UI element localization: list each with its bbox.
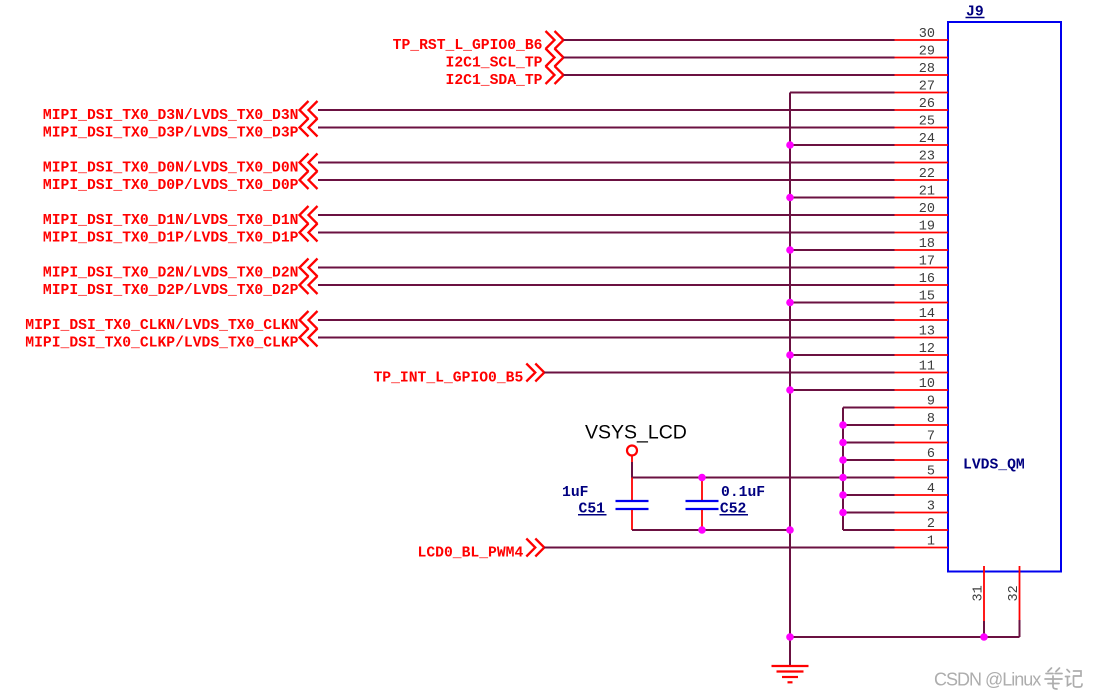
junction C52 bottom: [698, 526, 706, 534]
pin 11 stub and pin number: [895, 359, 949, 374]
svg-text:0.1uF: 0.1uF: [721, 485, 765, 501]
wire MIPI_DSI_TX0_D2N/LVDS_TX0_D2N to pin 17: [318, 267, 895, 269]
net port TP_INT_L_GPIO0_B5 (chevron): [373, 364, 544, 387]
ground symbol: [772, 666, 809, 682]
pin 15 stub and pin number: [895, 289, 949, 304]
pin 13 stub and pin number: [895, 324, 949, 339]
svg-text:9: 9: [927, 394, 935, 409]
wire GND bus to pin 10: [790, 389, 895, 391]
svg-text:27: 27: [919, 79, 935, 94]
junction pin 31 / GND rail: [980, 633, 988, 641]
net port MIPI_DSI_TX0_D3P/LVDS_TX0_D3P (chevron): [43, 119, 318, 142]
svg-text:21: 21: [919, 184, 935, 199]
net port MIPI_DSI_TX0_D2N/LVDS_TX0_D2N (chevron): [43, 259, 318, 282]
pin 9 stub and pin number: [895, 394, 949, 409]
net port MIPI_DSI_TX0_D0P/LVDS_TX0_D0P (chevron): [43, 171, 318, 194]
net port MIPI_DSI_TX0_CLKN/LVDS_TX0_CLKN (chevron): [25, 311, 317, 334]
svg-text:LCD0_BL_PWM4: LCD0_BL_PWM4: [418, 546, 524, 562]
svg-text:18: 18: [919, 237, 935, 252]
svg-text:22: 22: [919, 167, 935, 182]
refdes label C51: [578, 502, 607, 518]
wire VSYS bus to pin 6: [843, 459, 895, 461]
pin 17 stub and pin number: [895, 254, 949, 269]
pin 28 stub and pin number: [895, 62, 949, 77]
junction VSYS bus pin 4: [839, 491, 847, 499]
wire GND vertical bus: [789, 93, 791, 666]
wire MIPI_DSI_TX0_D1P/LVDS_TX0_D1P to pin 19: [318, 232, 895, 234]
wire VSYS_LCD circle to rail: [631, 456, 633, 478]
svg-text:2: 2: [927, 517, 935, 532]
pin 26 stub and pin number: [895, 97, 949, 112]
wire GND bus to pin 12: [790, 354, 895, 356]
pin 27 stub and pin number: [895, 79, 949, 94]
svg-text:4: 4: [927, 482, 935, 497]
junction GND bus pin 18: [786, 246, 794, 254]
svg-text:29: 29: [919, 44, 935, 59]
svg-text:TP_INT_L_GPIO0_B5: TP_INT_L_GPIO0_B5: [373, 371, 523, 387]
svg-text:19: 19: [919, 219, 935, 234]
net port MIPI_DSI_TX0_D3N/LVDS_TX0_D3N (chevron): [43, 101, 318, 124]
pin 22 stub and pin number: [895, 167, 949, 182]
svg-text:8: 8: [927, 412, 935, 427]
value label 0.1uF: [721, 485, 765, 501]
net port LCD0_BL_PWM4 (chevron): [418, 539, 545, 562]
net port I2C1_SCL_TP (chevron): [446, 49, 564, 72]
svg-text:MIPI_DSI_TX0_D1P/LVDS_TX0_D1P: MIPI_DSI_TX0_D1P/LVDS_TX0_D1P: [43, 231, 299, 247]
pin 19 stub and pin number: [895, 219, 949, 234]
svg-text:15: 15: [919, 289, 935, 304]
svg-text:26: 26: [919, 97, 935, 112]
wire TP_RST_L_GPIO0_B6 to pin 30: [564, 39, 895, 41]
svg-text:MIPI_DSI_TX0_CLKP/LVDS_TX0_CLK: MIPI_DSI_TX0_CLKP/LVDS_TX0_CLKP: [25, 336, 298, 352]
watermark CSDN @Linux: [934, 668, 1082, 690]
pin 25 stub and pin number: [895, 114, 949, 129]
junction C52 top: [698, 474, 706, 482]
svg-text:I2C1_SDA_TP: I2C1_SDA_TP: [446, 73, 543, 89]
wire GND bus to pin 18: [790, 249, 895, 251]
net port MIPI_DSI_TX0_D0N/LVDS_TX0_D0N (chevron): [43, 154, 318, 177]
pin 32 number: [1007, 585, 1022, 601]
pin 12 stub and pin number: [895, 342, 949, 357]
pin 4 stub and pin number: [895, 482, 949, 497]
value label 1uF: [562, 485, 588, 501]
wire LCD0_BL_PWM4 to pin 1: [544, 547, 894, 549]
svg-text:1uF: 1uF: [562, 485, 588, 501]
svg-text:MIPI_DSI_TX0_D1N/LVDS_TX0_D1N: MIPI_DSI_TX0_D1N/LVDS_TX0_D1N: [43, 213, 299, 229]
svg-text:I2C1_SCL_TP: I2C1_SCL_TP: [446, 56, 543, 72]
svg-text:14: 14: [919, 307, 935, 322]
pin 32 stub: [1019, 566, 1021, 637]
wire GND bus to pin 21: [790, 197, 895, 199]
svg-text:7: 7: [927, 429, 935, 444]
wire VSYS bus to pin 4: [843, 494, 895, 496]
svg-text:30: 30: [919, 27, 935, 42]
wire MIPI_DSI_TX0_D3N/LVDS_TX0_D3N to pin 26: [318, 109, 895, 111]
svg-text:5: 5: [927, 464, 935, 479]
wire VSYS bus to pin 8: [843, 424, 895, 426]
svg-text:25: 25: [919, 114, 935, 129]
pin 16 stub and pin number: [895, 272, 949, 287]
pin 1 stub and pin number: [895, 534, 949, 549]
connector J9 body: [948, 22, 1061, 572]
svg-text:12: 12: [919, 342, 935, 357]
pin 21 stub and pin number: [895, 184, 949, 199]
svg-text:3: 3: [927, 499, 935, 514]
refdes label J9: [966, 5, 985, 21]
junction VSYS bus pin 8: [839, 421, 847, 429]
pin 24 stub and pin number: [895, 132, 949, 147]
pin 20 stub and pin number: [895, 202, 949, 217]
pin 18 stub and pin number: [895, 237, 949, 252]
svg-text:17: 17: [919, 254, 935, 269]
net port MIPI_DSI_TX0_D1P/LVDS_TX0_D1P (chevron): [43, 224, 318, 247]
capacitor C51 plates: [616, 501, 649, 509]
wire VSYS bus to pin 7: [843, 442, 895, 444]
wire I2C1_SCL_TP to pin 29: [564, 57, 895, 59]
pin 31 stub: [983, 566, 985, 637]
pin 2 stub and pin number: [895, 517, 949, 532]
wire MIPI_DSI_TX0_CLKP/LVDS_TX0_CLKP to pin 13: [318, 337, 895, 339]
svg-text:MIPI_DSI_TX0_D2P/LVDS_TX0_D2P: MIPI_DSI_TX0_D2P/LVDS_TX0_D2P: [43, 283, 299, 299]
wire GND bus to pin 24: [790, 144, 895, 146]
net port MIPI_DSI_TX0_D2P/LVDS_TX0_D2P (chevron): [43, 276, 318, 299]
svg-text:13: 13: [919, 324, 935, 339]
pin 6 stub and pin number: [895, 447, 949, 462]
net port TP_RST_L_GPIO0_B6 (chevron): [393, 31, 564, 54]
wire VSYS bus to pin 9: [843, 407, 895, 409]
wire VSYS bus to pin 2: [843, 529, 895, 531]
svg-text:1: 1: [927, 534, 935, 549]
wire VSYS bus to pin 5 / capacitor top rail: [632, 477, 895, 479]
wire MIPI_DSI_TX0_D0N/LVDS_TX0_D0N to pin 23: [318, 162, 895, 164]
net port MIPI_DSI_TX0_CLKP/LVDS_TX0_CLKP (chevron): [25, 329, 317, 352]
junction GND bus pin 24: [786, 141, 794, 149]
pin 30 stub and pin number: [895, 27, 949, 42]
wire MIPI_DSI_TX0_D0P/LVDS_TX0_D0P to pin 22: [318, 179, 895, 181]
svg-text:MIPI_DSI_TX0_D2N/LVDS_TX0_D2N: MIPI_DSI_TX0_D2N/LVDS_TX0_D2N: [43, 266, 299, 282]
svg-text:32: 32: [1007, 585, 1022, 601]
wire GND bus to pin 27: [790, 92, 895, 94]
wire I2C1_SDA_TP to pin 28: [564, 74, 895, 76]
junction GND bus pin 10: [786, 386, 794, 394]
capacitor C52 bottom lead: [701, 510, 703, 529]
svg-text:LVDS_QM: LVDS_QM: [963, 458, 1025, 474]
pin 3 stub and pin number: [895, 499, 949, 514]
pin 14 stub and pin number: [895, 307, 949, 322]
junction cap rail / GND bus: [786, 526, 794, 534]
junction GND rail / GND bus: [786, 633, 794, 641]
capacitor C51 bottom lead: [631, 510, 633, 529]
svg-text:31: 31: [972, 585, 987, 601]
svg-text:MIPI_DSI_TX0_CLKN/LVDS_TX0_CLK: MIPI_DSI_TX0_CLKN/LVDS_TX0_CLKN: [25, 318, 298, 334]
svg-text:MIPI_DSI_TX0_D3P/LVDS_TX0_D3P: MIPI_DSI_TX0_D3P/LVDS_TX0_D3P: [43, 126, 299, 142]
pin 8 stub and pin number: [895, 412, 949, 427]
svg-text:16: 16: [919, 272, 935, 287]
svg-text:10: 10: [919, 377, 935, 392]
svg-text:CSDN @Linux: CSDN @Linux: [934, 670, 1041, 690]
capacitor C52 top lead: [701, 478, 703, 501]
wire MIPI_DSI_TX0_CLKN/LVDS_TX0_CLKN to pin 14: [318, 319, 895, 321]
part value label LVDS_QM: [963, 458, 1025, 474]
wire MIPI_DSI_TX0_D2P/LVDS_TX0_D2P to pin 16: [318, 284, 895, 286]
svg-text:28: 28: [919, 62, 935, 77]
pin 10 stub and pin number: [895, 377, 949, 392]
junction VSYS bus pin 7: [839, 439, 847, 447]
wire capacitor bottom rail to GND bus: [632, 529, 790, 530]
wire MIPI_DSI_TX0_D3P/LVDS_TX0_D3P to pin 25: [318, 127, 895, 129]
wire VSYS bus to pin 3: [843, 512, 895, 514]
capacitor C52 plates: [686, 501, 719, 509]
pin 29 stub and pin number: [895, 44, 949, 59]
pin 5 stub and pin number: [895, 464, 949, 479]
junction VSYS bus pin 5: [839, 474, 847, 482]
svg-text:TP_RST_L_GPIO0_B6: TP_RST_L_GPIO0_B6: [393, 38, 543, 54]
junction VSYS bus pin 3: [839, 509, 847, 517]
svg-text:23: 23: [919, 149, 935, 164]
svg-text:VSYS_LCD: VSYS_LCD: [585, 422, 687, 444]
junction VSYS bus pin 6: [839, 456, 847, 464]
pin 31 number: [972, 585, 987, 601]
svg-text:6: 6: [927, 447, 935, 462]
pin 7 stub and pin number: [895, 429, 949, 444]
wire pins 31/32 to GND bus: [790, 636, 1020, 638]
svg-text:11: 11: [919, 359, 935, 374]
svg-text:20: 20: [919, 202, 935, 217]
capacitor C51 top lead: [631, 478, 633, 501]
svg-text:MIPI_DSI_TX0_D0P/LVDS_TX0_D0P: MIPI_DSI_TX0_D0P/LVDS_TX0_D0P: [43, 178, 299, 194]
net port I2C1_SDA_TP (chevron): [446, 66, 564, 89]
junction GND bus pin 15: [786, 299, 794, 307]
svg-text:MIPI_DSI_TX0_D0N/LVDS_TX0_D0N: MIPI_DSI_TX0_D0N/LVDS_TX0_D0N: [43, 161, 299, 177]
net port MIPI_DSI_TX0_D1N/LVDS_TX0_D1N (chevron): [43, 206, 318, 229]
power symbol VSYS_LCD circle: [627, 446, 637, 456]
svg-text:MIPI_DSI_TX0_D3N/LVDS_TX0_D3N: MIPI_DSI_TX0_D3N/LVDS_TX0_D3N: [43, 108, 299, 124]
refdes label C52: [720, 502, 749, 518]
wire TP_INT_L_GPIO0_B5 to pin 11: [544, 372, 894, 374]
wire GND bus to pin 15: [790, 302, 895, 304]
wire MIPI_DSI_TX0_D1N/LVDS_TX0_D1N to pin 20: [318, 214, 895, 216]
power symbol VSYS_LCD label: [585, 422, 687, 444]
pin 23 stub and pin number: [895, 149, 949, 164]
junction GND bus pin 21: [786, 194, 794, 202]
svg-text:24: 24: [919, 132, 935, 147]
wire VSYS_LCD vertical bus: [842, 408, 844, 531]
junction GND bus pin 12: [786, 351, 794, 359]
